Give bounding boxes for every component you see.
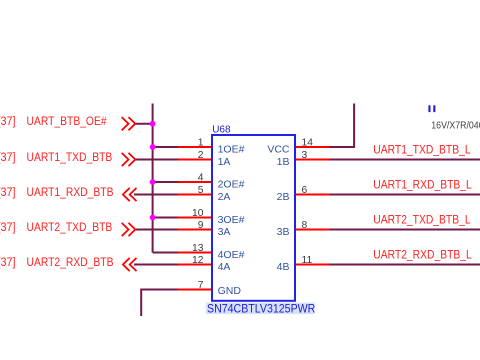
- svg-text:6: 6: [302, 185, 308, 196]
- IC U68 body: [212, 135, 295, 301]
- svg-text:1A: 1A: [218, 156, 231, 168]
- svg-text:3B: 3B: [277, 226, 290, 238]
- wire: UART1_RXD_BTB to pin 5: [134, 194, 178, 196]
- port arrow UART1_TXD_BTB (out): [122, 153, 136, 166]
- svg-text:UART2_TXD_BTB_L: UART2_TXD_BTB_L: [373, 214, 470, 227]
- value highlight box: [206, 303, 315, 315]
- svg-text:[37]: [37]: [0, 116, 16, 129]
- svg-text:3: 3: [302, 150, 308, 161]
- svg-text:2: 2: [198, 150, 204, 161]
- junction at OE# entry: [150, 121, 156, 127]
- pin 5 stub: [178, 194, 212, 196]
- pin 7 stub: [178, 289, 212, 291]
- svg-text:UART2_RXD_BTB_L: UART2_RXD_BTB_L: [373, 249, 471, 262]
- svg-text:13: 13: [192, 243, 204, 254]
- pin 13 stub: [178, 252, 212, 254]
- svg-text:8: 8: [302, 220, 308, 231]
- svg-text:12: 12: [192, 255, 204, 266]
- wire: bus corner to pin 13: [153, 252, 178, 254]
- pin 6 stub: [296, 194, 330, 196]
- svg-text:VCC: VCC: [267, 144, 290, 156]
- wire: bus branch to pin 10: [153, 217, 178, 219]
- wire: UART2_TXD_BTB to pin 9: [135, 229, 178, 231]
- pin 11 stub: [296, 264, 330, 266]
- wire: net UART1_TXD_BTB_L: [330, 159, 480, 161]
- svg-text:1OE#: 1OE#: [218, 144, 245, 156]
- svg-text:[37]: [37]: [0, 152, 16, 165]
- capacitor plates (partial, top right): [428, 105, 430, 112]
- wire: bus branch to pin 4: [153, 181, 178, 183]
- svg-text:1: 1: [198, 138, 204, 149]
- wire: OE# vertical bus: [152, 104, 154, 253]
- wire: UART1_TXD_BTB to pin 2: [135, 159, 178, 161]
- svg-text:SN74CBTLV3125PWR: SN74CBTLV3125PWR: [207, 303, 315, 316]
- svg-text:UART1_TXD_BTB: UART1_TXD_BTB: [27, 151, 113, 164]
- svg-text:3A: 3A: [218, 226, 231, 238]
- port arrow UART1_RXD_BTB (in): [123, 188, 137, 201]
- wire: bus branch to pin 1: [153, 146, 178, 148]
- svg-text:UART1_RXD_BTB: UART1_RXD_BTB: [27, 186, 114, 199]
- svg-text:1B: 1B: [277, 156, 290, 168]
- svg-text:4A: 4A: [218, 261, 231, 273]
- svg-text:2A: 2A: [218, 191, 231, 203]
- svg-text:GND: GND: [218, 285, 242, 297]
- svg-text:9: 9: [198, 220, 204, 231]
- wire: net UART2_RXD_BTB_L: [330, 264, 480, 266]
- pin 2 stub: [178, 159, 212, 161]
- wire: VCC riser from pin 14: [330, 104, 355, 148]
- junction at pin 10 branch: [150, 215, 156, 221]
- svg-text:UART2_RXD_BTB: UART2_RXD_BTB: [27, 256, 114, 269]
- wire: net UART2_TXD_BTB_L: [330, 229, 480, 231]
- svg-text:14: 14: [302, 138, 314, 149]
- svg-text:UART1_RXD_BTB_L: UART1_RXD_BTB_L: [373, 179, 471, 192]
- svg-text:10: 10: [192, 208, 204, 219]
- svg-text:UART1_TXD_BTB_L: UART1_TXD_BTB_L: [373, 144, 470, 157]
- pin 12 stub: [178, 264, 212, 266]
- svg-text:U68: U68: [212, 125, 231, 136]
- svg-text:4OE#: 4OE#: [218, 249, 245, 261]
- wire: net UART1_RXD_BTB_L: [330, 194, 480, 196]
- svg-text:UART_BTB_OE#: UART_BTB_OE#: [27, 116, 108, 129]
- junction at pin 4 branch: [150, 179, 156, 185]
- pin 10 stub: [178, 217, 212, 219]
- svg-text:11: 11: [302, 255, 313, 266]
- port arrow UART2_TXD_BTB (out): [122, 223, 136, 236]
- port arrow UART2_RXD_BTB (in): [123, 258, 137, 271]
- pin 4 stub: [178, 181, 212, 183]
- junction at pin 1 branch: [150, 144, 156, 150]
- svg-text:2B: 2B: [277, 191, 290, 203]
- svg-text:7: 7: [198, 280, 204, 291]
- wire: UART2_RXD_BTB to pin 12: [134, 264, 178, 266]
- svg-text:3OE#: 3OE#: [218, 214, 245, 226]
- port arrow UART_BTB_OE# (out): [122, 117, 136, 130]
- pin 1 stub: [178, 146, 212, 148]
- svg-text:[37]: [37]: [0, 257, 16, 270]
- pin 3 stub: [296, 159, 330, 161]
- wire: GND pin 7 down-hook: [141, 290, 178, 317]
- svg-text:[37]: [37]: [0, 187, 16, 200]
- pin 14 stub: [296, 146, 330, 148]
- svg-text:4: 4: [198, 173, 204, 184]
- svg-text:5: 5: [198, 185, 204, 196]
- svg-text:[37]: [37]: [0, 222, 16, 235]
- pin 9 stub: [178, 229, 212, 231]
- svg-text:UART2_TXD_BTB: UART2_TXD_BTB: [27, 221, 113, 234]
- wire: UART_BTB_OE# horizontal into bus: [135, 123, 152, 125]
- svg-text:2OE#: 2OE#: [218, 179, 245, 191]
- pin 8 stub: [296, 229, 330, 231]
- svg-text:4B: 4B: [277, 261, 290, 273]
- svg-text:16V/X7R/0402: 16V/X7R/0402: [431, 119, 480, 131]
